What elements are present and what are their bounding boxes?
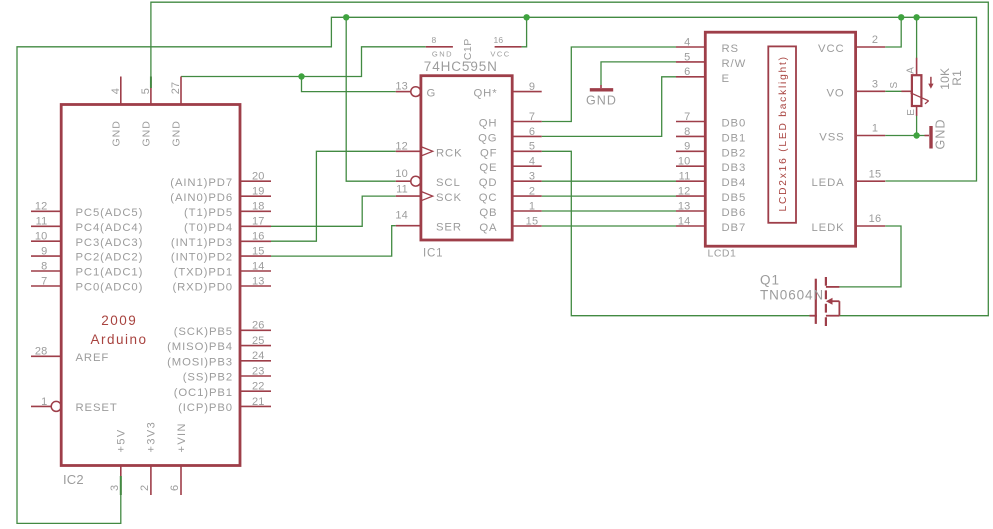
svg-text:1: 1 bbox=[41, 396, 47, 408]
svg-text:QF: QF bbox=[480, 147, 498, 159]
IC2 bottom pin 6 +VIN bbox=[180, 466, 182, 496]
svg-text:2: 2 bbox=[139, 485, 151, 491]
junction node +5V / LCD VCC branch bbox=[898, 14, 904, 20]
svg-text:QH: QH bbox=[479, 118, 498, 130]
svg-text:14: 14 bbox=[395, 209, 408, 221]
IC2 left pin 10 PC3(ADC3) bbox=[31, 240, 61, 242]
svg-text:LEDA: LEDA bbox=[811, 177, 844, 189]
svg-text:DB6: DB6 bbox=[722, 207, 747, 219]
svg-text:26: 26 bbox=[252, 320, 265, 332]
svg-text:PC5(ADC5): PC5(ADC5) bbox=[76, 207, 144, 219]
svg-text:2: 2 bbox=[529, 186, 535, 198]
svg-text:9: 9 bbox=[529, 81, 535, 93]
svg-text:7: 7 bbox=[41, 275, 47, 287]
svg-text:13: 13 bbox=[252, 275, 265, 287]
svg-text:2: 2 bbox=[872, 34, 878, 46]
IC2 left pin 7 PC0(ADC0) bbox=[31, 285, 61, 287]
svg-text:5: 5 bbox=[529, 141, 535, 153]
wire LCD LEDK pin 16 to Q1 drain bbox=[839, 226, 901, 287]
svg-text:22: 22 bbox=[252, 381, 265, 393]
IC1 right pin 1 QB bbox=[512, 210, 542, 212]
svg-text:13: 13 bbox=[395, 81, 408, 93]
svg-text:VCC: VCC bbox=[818, 43, 845, 55]
LCD1 left pin 6 E bbox=[676, 76, 705, 78]
wire IC1 QG pin 6 to LCD E pin 6 bbox=[542, 77, 676, 137]
wire LCD VO pin 3 to R1 wiper S bbox=[885, 90, 902, 92]
svg-text:21: 21 bbox=[252, 396, 265, 408]
svg-text:9: 9 bbox=[684, 141, 690, 153]
IC1 right pin 9 QH* bbox=[512, 91, 542, 93]
svg-text:QA: QA bbox=[479, 222, 497, 234]
IC2 right pin 15 (INT0)PD2 bbox=[240, 255, 271, 257]
svg-text:15: 15 bbox=[869, 168, 882, 180]
svg-text:18: 18 bbox=[252, 201, 265, 213]
svg-text:LCD1: LCD1 bbox=[708, 248, 737, 260]
svg-text:12: 12 bbox=[395, 141, 408, 153]
svg-text:7: 7 bbox=[529, 111, 535, 123]
IC2 bottom pin 3 +5V bbox=[120, 466, 122, 496]
LCD1 left pin 9 DB2 bbox=[676, 150, 705, 152]
svg-text:R/W: R/W bbox=[722, 58, 747, 70]
svg-text:GND: GND bbox=[110, 120, 122, 146]
svg-text:(ICP)PB0: (ICP)PB0 bbox=[178, 402, 233, 414]
wire PD4 to IC1 SCK pin 11 bbox=[271, 196, 396, 226]
IC1 pin 11 SCK (clock) bbox=[396, 195, 421, 197]
IC2 right pin 20 (AIN1)PD7 bbox=[240, 180, 271, 182]
svg-text:3: 3 bbox=[529, 171, 535, 183]
svg-text:5: 5 bbox=[684, 51, 690, 63]
svg-text:RCK: RCK bbox=[436, 147, 463, 159]
IC1 right pin 5 QF bbox=[512, 150, 542, 152]
svg-text:13: 13 bbox=[678, 200, 691, 212]
svg-text:10: 10 bbox=[678, 156, 691, 168]
svg-text:9: 9 bbox=[41, 246, 47, 258]
svg-text:6: 6 bbox=[684, 66, 690, 78]
LCD1 right pin 2 VCC bbox=[856, 46, 886, 48]
IC LCD1 LCD2x16 display body bbox=[705, 32, 855, 246]
IC2 right pin 23 (SS)PB2 bbox=[240, 375, 271, 377]
IC2 right pin 18 (T1)PD5 bbox=[240, 210, 271, 212]
svg-text:SER: SER bbox=[436, 222, 462, 234]
svg-text:R1: R1 bbox=[950, 70, 964, 86]
wire IC1 QF pin 5 to Q1 gate bbox=[542, 151, 810, 315]
svg-text:(TXD)PD1: (TXD)PD1 bbox=[174, 267, 233, 279]
svg-text:E: E bbox=[906, 109, 917, 116]
svg-text:11: 11 bbox=[396, 183, 408, 195]
LCD1 right pin 15 LEDA bbox=[856, 180, 886, 182]
wire LCD R/W pin 5 to GND symbol bbox=[601, 62, 676, 86]
LCD1 left pin 8 DB1 bbox=[676, 135, 705, 137]
wire GND overlap on IC2 pin 5 stub bbox=[150, 77, 152, 89]
IC2 right pin 21 (ICP)PB0 bbox=[240, 405, 271, 407]
svg-text:(RXD)PD0: (RXD)PD0 bbox=[172, 282, 233, 294]
svg-text:25: 25 bbox=[252, 335, 265, 347]
svg-text:4: 4 bbox=[529, 156, 535, 168]
svg-text:LEDK: LEDK bbox=[811, 222, 844, 234]
svg-text:5: 5 bbox=[140, 88, 152, 94]
svg-text:IC1: IC1 bbox=[423, 248, 443, 260]
svg-text:12: 12 bbox=[678, 186, 691, 198]
svg-text:SCK: SCK bbox=[436, 192, 462, 204]
svg-text:A: A bbox=[906, 67, 917, 74]
IC1 right pin 4 QE bbox=[512, 165, 542, 167]
wire GND branch: node A down to IC1 G pin 13 bbox=[302, 77, 396, 92]
svg-text:16: 16 bbox=[252, 231, 265, 243]
LCD1 left pin 12 DB5 bbox=[676, 195, 705, 197]
svg-text:E: E bbox=[722, 73, 730, 85]
svg-text:4: 4 bbox=[684, 36, 690, 48]
LCD1 right pin 1 VSS bbox=[856, 135, 886, 137]
wire IC1 QD pin 3 to LCD DB4 pin 11 bbox=[542, 180, 676, 182]
IC2 right pin 17 (T0)PD4 bbox=[240, 225, 271, 227]
svg-text:+5V: +5V bbox=[116, 428, 128, 452]
svg-text:VSS: VSS bbox=[819, 132, 844, 144]
wire IC1 QC pin 2 to LCD DB5 pin 12 bbox=[542, 195, 676, 197]
resistor R1 10K potentiometer bbox=[912, 75, 922, 106]
junction node VSS / R1 E / GND bbox=[913, 132, 919, 138]
svg-text:+VIN: +VIN bbox=[176, 422, 188, 452]
svg-text:QC: QC bbox=[479, 192, 498, 204]
IC1 power pin 16 VCC bbox=[495, 46, 522, 48]
svg-text:74HC595N: 74HC595N bbox=[424, 59, 498, 74]
IC1 right pin 7 QH bbox=[512, 121, 542, 123]
IC2 bottom pin 2 +3V3 bbox=[150, 466, 152, 496]
svg-text:TN0604N: TN0604N bbox=[760, 288, 824, 303]
svg-text:VCC: VCC bbox=[490, 50, 510, 59]
IC IC1 74HC595N body bbox=[421, 76, 512, 240]
svg-text:15: 15 bbox=[252, 246, 265, 258]
svg-text:3: 3 bbox=[109, 485, 121, 491]
IC1 pin 13 G (output enable, bubble) bbox=[396, 91, 412, 93]
svg-text:DB4: DB4 bbox=[722, 177, 747, 189]
IC2 right pin 13 (RXD)PD0 bbox=[240, 285, 271, 287]
svg-text:(MISO)PB4: (MISO)PB4 bbox=[167, 341, 233, 353]
svg-text:SCL: SCL bbox=[436, 177, 461, 189]
svg-text:(T1)PD5: (T1)PD5 bbox=[184, 207, 233, 219]
svg-text:QD: QD bbox=[479, 177, 498, 189]
svg-text:+3V3: +3V3 bbox=[146, 421, 158, 453]
svg-text:28: 28 bbox=[35, 346, 48, 358]
svg-text:S: S bbox=[889, 82, 900, 89]
svg-text:LCD2x16 (LED backlight): LCD2x16 (LED backlight) bbox=[778, 55, 789, 211]
svg-text:QG: QG bbox=[478, 132, 497, 144]
svg-text:(SS)PB2: (SS)PB2 bbox=[183, 372, 233, 384]
IC1 pin 10 SCL (bubble) bbox=[396, 180, 412, 182]
IC2 pin 28 AREF bbox=[31, 355, 61, 357]
IC2 right pin 26 (SCK)PB5 bbox=[240, 329, 271, 331]
svg-text:10: 10 bbox=[395, 168, 408, 180]
svg-text:23: 23 bbox=[252, 365, 265, 377]
LCD1 left pin 7 DB0 bbox=[676, 121, 705, 123]
LCD1 left pin 11 DB4 bbox=[676, 180, 705, 182]
svg-text:(SCK)PB5: (SCK)PB5 bbox=[174, 326, 233, 338]
IC1 pin 14 SER bbox=[396, 225, 421, 227]
svg-text:DB5: DB5 bbox=[722, 192, 747, 204]
IC2 right pin 25 (MISO)PB4 bbox=[240, 345, 271, 347]
svg-text:3: 3 bbox=[872, 79, 878, 91]
IC IC2 Arduino 2009 body bbox=[61, 105, 240, 466]
svg-text:PC0(ADC0): PC0(ADC0) bbox=[76, 282, 144, 294]
junction node +5V / R1 A branch bbox=[913, 14, 919, 20]
IC2 right pin 19 (AIN0)PD6 bbox=[240, 195, 271, 197]
wire LCD VSS pin 1 to GND symbol bbox=[885, 135, 924, 137]
svg-text:RS: RS bbox=[722, 43, 740, 55]
transistor Q1 TN0604N n-channel MOSFET bbox=[815, 279, 817, 324]
svg-text:24: 24 bbox=[252, 350, 265, 362]
svg-text:10: 10 bbox=[35, 231, 48, 243]
svg-text:IC2: IC2 bbox=[63, 472, 84, 487]
wire GND net: Arduino pin 5 to top rail, right edge down to Q1 source bbox=[151, 2, 988, 316]
svg-text:1: 1 bbox=[872, 123, 878, 135]
LCD1 left pin 13 DB6 bbox=[676, 210, 705, 212]
wire PD3 to IC1 RCK pin 12 bbox=[271, 151, 396, 241]
svg-text:IC1P: IC1P bbox=[462, 38, 474, 63]
svg-text:(MOSI)PB3: (MOSI)PB3 bbox=[167, 356, 233, 368]
junction node +5V / SCL branch bbox=[343, 14, 349, 20]
svg-text:8: 8 bbox=[41, 260, 47, 272]
IC1 right pin 3 QD bbox=[512, 180, 542, 182]
IC2 right pin 22 (OC1)PB1 bbox=[240, 390, 271, 392]
svg-text:Q1: Q1 bbox=[760, 272, 780, 287]
svg-text:14: 14 bbox=[678, 215, 691, 227]
IC1 right pin 2 QC bbox=[512, 195, 542, 197]
svg-text:GND: GND bbox=[586, 93, 617, 107]
svg-text:17: 17 bbox=[252, 216, 265, 228]
svg-text:VO: VO bbox=[826, 87, 844, 99]
IC2 left pin 11 PC4(ADC4) bbox=[31, 225, 61, 227]
svg-text:QH*: QH* bbox=[473, 88, 497, 100]
wire +5V branch to R1 terminal A bbox=[916, 17, 918, 58]
svg-text:AREF: AREF bbox=[76, 352, 110, 364]
svg-text:(INT1)PD3: (INT1)PD3 bbox=[171, 237, 233, 249]
svg-text:11: 11 bbox=[679, 171, 691, 183]
svg-text:27: 27 bbox=[170, 82, 182, 95]
IC2 pin 1 RESET with bubble bbox=[31, 405, 51, 407]
IC2 top pin 5 GND bbox=[150, 77, 152, 105]
wire +5V branch to IC1 SCL pin 10 bbox=[346, 17, 396, 181]
IC1 right pin 6 QG bbox=[512, 135, 542, 137]
IC2 top pin 4 GND bbox=[120, 77, 122, 105]
IC2 right pin 16 (INT1)PD3 bbox=[240, 240, 271, 242]
svg-text:RESET: RESET bbox=[76, 402, 118, 414]
svg-text:G: G bbox=[427, 88, 437, 100]
wire +5V overlap on IC2 pin 3 stub bbox=[120, 476, 122, 495]
svg-text:16: 16 bbox=[494, 35, 504, 45]
IC2 right pin 14 (TXD)PD1 bbox=[240, 270, 271, 272]
ground symbol at LCD VSS (rotated) bbox=[925, 135, 930, 137]
wire R1 terminal E to VSS node bbox=[916, 116, 918, 136]
svg-text:20: 20 bbox=[252, 171, 265, 183]
IC1 right pin 15 QA bbox=[512, 225, 542, 227]
svg-text:GND: GND bbox=[171, 120, 183, 146]
svg-text:DB3: DB3 bbox=[722, 162, 747, 174]
svg-text:GND: GND bbox=[934, 118, 948, 149]
wire IC1 QB pin 1 to LCD DB6 pin 13 bbox=[542, 210, 676, 212]
svg-text:6: 6 bbox=[529, 126, 535, 138]
IC2 top pin 27 GND bbox=[180, 77, 182, 105]
svg-text:8: 8 bbox=[684, 126, 690, 138]
svg-text:QE: QE bbox=[479, 162, 497, 174]
svg-text:PC2(ADC2): PC2(ADC2) bbox=[76, 252, 144, 264]
wire GND: Arduino pin 27 to IC1 GND pin 8 bbox=[181, 47, 426, 77]
svg-text:8: 8 bbox=[432, 35, 437, 45]
junction node A: GND at Arduino pin 27 bbox=[298, 73, 304, 79]
IC2 left pin 12 PC5(ADC5) bbox=[31, 210, 61, 212]
LCD1 left pin 4 RS bbox=[676, 46, 705, 48]
svg-text:19: 19 bbox=[252, 186, 265, 198]
svg-text:12: 12 bbox=[35, 201, 48, 213]
LCD1 right pin 3 VO bbox=[856, 90, 886, 92]
svg-text:(AIN1)PD7: (AIN1)PD7 bbox=[170, 177, 233, 189]
svg-text:PC3(ADC3): PC3(ADC3) bbox=[76, 237, 144, 249]
svg-text:PC1(ADC1): PC1(ADC1) bbox=[76, 267, 144, 279]
IC1 pin 12 RCK (clock) bbox=[396, 150, 421, 152]
IC2 right pin 24 (MOSI)PB3 bbox=[240, 360, 271, 362]
svg-text:GND: GND bbox=[140, 120, 152, 146]
IC2 left pin 9 PC2(ADC2) bbox=[31, 255, 61, 257]
svg-text:(INT0)PD2: (INT0)PD2 bbox=[171, 252, 233, 264]
svg-text:(OC1)PB1: (OC1)PB1 bbox=[174, 387, 233, 399]
svg-text:DB7: DB7 bbox=[722, 222, 747, 234]
IC2 left pin 8 PC1(ADC1) bbox=[31, 270, 61, 272]
svg-text:1: 1 bbox=[529, 200, 535, 212]
wire IC1 QH pin 7 to LCD RS pin 4 bbox=[542, 47, 676, 122]
svg-text:16: 16 bbox=[869, 213, 882, 225]
svg-text:6: 6 bbox=[169, 485, 181, 491]
svg-text:GND: GND bbox=[432, 50, 453, 59]
wire PD2 to IC1 SER pin 14 bbox=[271, 226, 396, 256]
wire +5V branch to LCD VCC pin 2 bbox=[885, 17, 901, 47]
svg-text:4: 4 bbox=[110, 88, 122, 94]
svg-text:(T0)PD4: (T0)PD4 bbox=[184, 222, 233, 234]
LCD1 left pin 10 DB3 bbox=[676, 165, 705, 167]
LCD1 right pin 16 LEDK bbox=[856, 225, 886, 227]
junction node +5V / IC1 VCC branch bbox=[523, 14, 529, 20]
LCD1 left pin 14 DB7 bbox=[676, 225, 705, 227]
svg-text:15: 15 bbox=[526, 215, 539, 227]
LCD1 inner rectangle with label bbox=[768, 46, 796, 222]
svg-text:QB: QB bbox=[479, 207, 497, 219]
svg-text:DB1: DB1 bbox=[722, 132, 747, 144]
wire +5V branch to IC1 VCC pin 16 bbox=[522, 17, 527, 47]
svg-text:(AIN0)PD6: (AIN0)PD6 bbox=[170, 192, 233, 204]
ground symbol at LCD R/W bbox=[600, 85, 602, 88]
svg-text:7: 7 bbox=[684, 111, 690, 123]
svg-text:11: 11 bbox=[36, 216, 48, 228]
svg-text:DB0: DB0 bbox=[722, 118, 747, 130]
svg-text:DB2: DB2 bbox=[722, 147, 747, 159]
IC1 power pin 8 GND bbox=[426, 46, 453, 48]
svg-text:PC4(ADC4): PC4(ADC4) bbox=[76, 222, 144, 234]
LCD1 left pin 5 R/W bbox=[676, 61, 705, 63]
svg-text:14: 14 bbox=[252, 260, 265, 272]
svg-text:2009: 2009 bbox=[101, 313, 137, 328]
svg-text:Arduino: Arduino bbox=[90, 332, 147, 347]
wire IC1 QA pin 15 to LCD DB7 pin 14 bbox=[542, 225, 676, 227]
